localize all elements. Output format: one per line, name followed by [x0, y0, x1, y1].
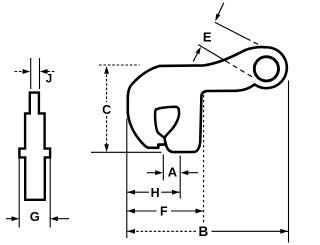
dimension J extension line right	[39, 58, 41, 89]
dimension B right arrowhead	[280, 229, 288, 234]
svg-text:E: E	[203, 30, 212, 45]
cam (swivel jaw)	[155, 107, 179, 138]
dimension C bottom extension line	[91, 151, 162, 153]
dimension J right arrowhead	[40, 69, 48, 74]
H/F/B left extension line	[126, 119, 128, 239]
dimension B left arrowhead	[127, 229, 135, 234]
dimension G right leader	[58, 218, 69, 220]
dimension C top arrowhead	[104, 66, 109, 74]
dimension A left leader	[147, 172, 156, 174]
dimension E upper arrow	[218, 3, 224, 15]
dimension G left leader	[6, 218, 12, 220]
left view: pin/lock body outline	[19, 93, 50, 200]
dimension G extension line left	[18, 159, 20, 228]
dimension A / H right extension line	[179, 156, 181, 199]
dimension J right leader (dashed)	[47, 71, 54, 73]
dimension B line left (dashed)	[127, 230, 196, 232]
dimension E lower arrow	[193, 53, 197, 61]
svg-text:C: C	[102, 103, 111, 117]
dimension G extension line right	[49, 159, 51, 228]
dimension J extension line left	[30, 58, 32, 89]
svg-text:B: B	[199, 224, 209, 239]
dimension F line	[127, 210, 156, 212]
dimension A left arrowhead	[155, 170, 163, 175]
svg-text:J: J	[46, 74, 52, 86]
dimension C bottom arrowhead	[104, 144, 109, 152]
dimension G right arrowhead	[50, 216, 58, 221]
svg-text:H: H	[151, 186, 160, 200]
svg-text:A: A	[168, 165, 178, 180]
dimension C line (dashed)	[106, 70, 108, 102]
dimension F right arrowhead	[196, 209, 204, 214]
dimension B line right	[212, 230, 289, 232]
dimension A left extension line	[162, 155, 164, 181]
svg-text:F: F	[160, 205, 168, 219]
dimension F left arrowhead	[127, 209, 135, 214]
dimension A right leader	[188, 172, 198, 174]
dimension E lower extension line	[198, 45, 225, 61]
dimension J left arrowhead	[23, 69, 31, 74]
dimension H line	[127, 191, 149, 193]
dimension G left arrowhead	[12, 216, 20, 221]
dimension F right extension line (dashed)	[203, 95, 205, 223]
eye hole (inner circle)	[254, 57, 278, 81]
dimension C top extension line (dashed)	[99, 64, 140, 66]
clamp body outline	[128, 47, 287, 152]
dimension H right arrowhead	[172, 190, 180, 195]
dimension A right arrowhead	[181, 170, 189, 175]
dimension J left leader (dashed)	[15, 71, 24, 73]
dimension E upper extension line	[215, 22, 246, 38]
svg-text:G: G	[30, 209, 40, 224]
dimension B right extension line	[288, 81, 290, 243]
dimension H left arrowhead	[127, 190, 135, 195]
